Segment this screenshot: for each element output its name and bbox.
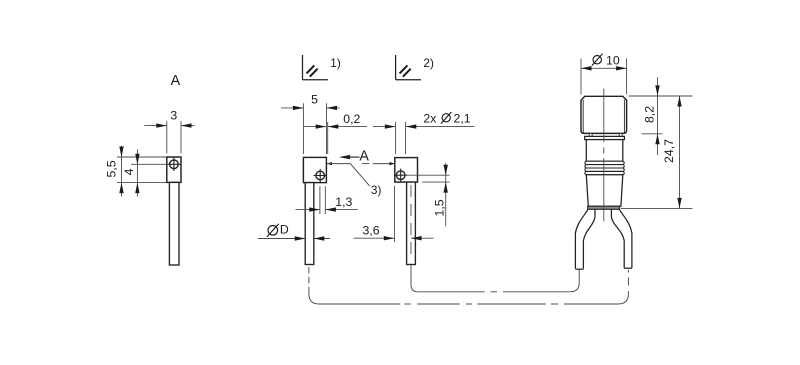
svg-text:0,2: 0,2: [343, 112, 360, 126]
svg-text:2,1: 2,1: [454, 111, 471, 125]
wire from right sensor (solid): [411, 265, 418, 292]
left sensor barrel stem: [305, 183, 314, 265]
sensor head (view A): [167, 157, 181, 182]
svg-text:10: 10: [606, 53, 620, 67]
dimension 8,2 (cap height): [641, 77, 662, 155]
dimension 24,7 (total height): [621, 96, 693, 208]
dimension 1,3 (hole center to active face): [296, 186, 358, 214]
svg-text:A: A: [359, 148, 369, 164]
svg-text:5: 5: [311, 93, 318, 107]
right sensor head (front view): [395, 158, 418, 183]
connector centerline: [603, 89, 605, 222]
right sensor barrel stem: [407, 182, 416, 264]
connector grip ribs: [585, 161, 624, 175]
dimension 2x diameter 2,1 (mounting holes): [373, 111, 475, 154]
dimension 5,5 (view A head height): [105, 146, 167, 197]
connector boot end: [588, 206, 620, 209]
right sensor hole with crosshair: [394, 169, 407, 182]
dimension 5 (left sensor head width): [281, 93, 340, 154]
dimension 1,5 (hole center to bottom face): [405, 163, 449, 226]
svg-text:5,5: 5,5: [105, 160, 119, 177]
connector left lead wire: [575, 209, 595, 269]
view direction arrow A: [339, 148, 369, 164]
view label A: [171, 73, 181, 89]
active surface symbol 1): [303, 55, 341, 80]
right sensor stem centerline: [410, 185, 412, 261]
svg-text:8,2: 8,2: [643, 106, 657, 123]
svg-text:3: 3: [170, 108, 177, 122]
sensor barrel stem (view A): [169, 182, 179, 265]
dimension diameter D (stem diameter): [258, 222, 330, 240]
dimension 3,6 (head face to stem axis): [353, 186, 433, 242]
svg-text:2): 2): [423, 56, 434, 70]
svg-text:3,6: 3,6: [362, 224, 379, 238]
mounting hole with crosshair (view A): [167, 158, 180, 171]
svg-text:3): 3): [371, 183, 382, 197]
svg-text:D: D: [280, 222, 289, 236]
dimension 0,2 (active face protrusion): [303, 112, 367, 154]
connector cap (diameter 10 head): [581, 96, 627, 133]
dashed wire to connector right lead: [627, 270, 629, 286]
upper cable run (right sensor to connector left wire): [418, 269, 579, 291]
svg-text:1,5: 1,5: [433, 199, 447, 216]
svg-text:2x: 2x: [423, 111, 437, 125]
active surface symbol 2): [396, 55, 434, 80]
svg-text:4: 4: [122, 168, 136, 175]
svg-text:24,7: 24,7: [662, 139, 676, 163]
lower cable run (left sensor to connector right wire): [319, 291, 629, 304]
svg-text:1): 1): [330, 56, 341, 70]
connector snap tabs: [589, 133, 622, 136]
left sensor head (front view): [303, 157, 326, 182]
dimension 3 (view A head width): [144, 108, 194, 153]
wire from left sensor (dashed): [309, 267, 319, 304]
left sensor hole with crosshair: [314, 169, 327, 182]
connector washer ring: [585, 136, 625, 139]
leader and note 3): [350, 164, 381, 197]
svg-text:A: A: [171, 73, 181, 89]
dimension diameter 10 (cap): [581, 53, 627, 94]
connector tapered body: [586, 175, 623, 206]
connector barrel: [586, 140, 623, 162]
sensing axis line between active faces: [327, 162, 395, 165]
connector right lead wire: [611, 209, 632, 268]
dimension 4 (view A hole center to bottom): [122, 150, 169, 197]
svg-text:1,3: 1,3: [335, 195, 352, 209]
